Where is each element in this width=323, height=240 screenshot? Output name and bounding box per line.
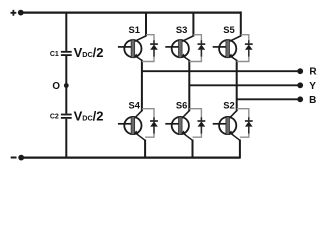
wire S6 emitter drop <box>192 140 194 158</box>
diode D6 bracket wire <box>189 109 201 138</box>
capacitor C1 <box>61 52 72 55</box>
wire S3 collector drop <box>182 13 193 42</box>
wire leg1 midpoint vertical <box>135 60 142 118</box>
capacitor C2 <box>61 115 72 118</box>
wire capacitor branch middle segment <box>65 56 67 114</box>
diode D5 bracket wire <box>237 35 249 62</box>
plus terminal dot <box>18 10 24 16</box>
transistor S4 <box>118 117 145 141</box>
diode D4 <box>150 117 158 133</box>
plus terminal label <box>11 10 17 16</box>
svg-text:S3: S3 <box>176 24 187 35</box>
node B dot <box>297 96 303 102</box>
diode D4 bracket wire <box>142 109 154 138</box>
diode D6 <box>198 117 206 133</box>
svg-text:R: R <box>309 67 317 78</box>
node Y dot <box>297 82 303 88</box>
wire phase R output <box>142 70 300 72</box>
diode D2 <box>245 117 253 133</box>
minus terminal dot <box>18 155 24 161</box>
diode D3 <box>198 40 206 56</box>
svg-text:S6: S6 <box>176 100 187 111</box>
wire S2 emitter drop <box>239 140 241 158</box>
svg-text:C2: C2 <box>50 114 59 121</box>
diode D1 bracket wire <box>142 35 154 62</box>
minus terminal label <box>11 157 17 159</box>
wire phase B output <box>237 98 301 100</box>
wire leg2 midpoint vertical <box>182 60 189 118</box>
wire S5 collector drop <box>230 11 241 41</box>
wire bottom DC bus <box>21 157 241 159</box>
svg-text:O: O <box>52 81 60 92</box>
wire capacitor branch lower segment <box>65 119 67 158</box>
svg-text:S5: S5 <box>223 24 234 35</box>
transistor S2 <box>213 117 240 141</box>
transistor S6 <box>165 117 192 141</box>
wire S1 collector drop <box>135 13 146 42</box>
wire leg3 midpoint vertical <box>230 60 237 118</box>
diode D5 <box>245 40 253 56</box>
diode D1 <box>150 40 158 56</box>
wire top DC bus <box>21 12 241 14</box>
svg-text:C1: C1 <box>50 51 59 58</box>
svg-text:Y: Y <box>309 81 316 92</box>
transistor S1 <box>118 40 142 61</box>
wire S4 emitter drop <box>144 140 146 158</box>
diode D3 bracket wire <box>189 35 201 62</box>
wire phase Y output <box>189 84 300 86</box>
node O dot <box>64 83 69 88</box>
svg-text:S2: S2 <box>223 100 234 111</box>
svg-text:B: B <box>309 95 316 106</box>
transistor S3 <box>165 40 189 61</box>
svg-text:S1: S1 <box>128 24 139 35</box>
node R dot <box>297 68 303 74</box>
wire capacitor branch upper segment <box>65 13 67 51</box>
svg-text:S4: S4 <box>128 100 140 111</box>
transistor S5 <box>213 40 237 61</box>
diode D2 bracket wire <box>237 109 249 138</box>
